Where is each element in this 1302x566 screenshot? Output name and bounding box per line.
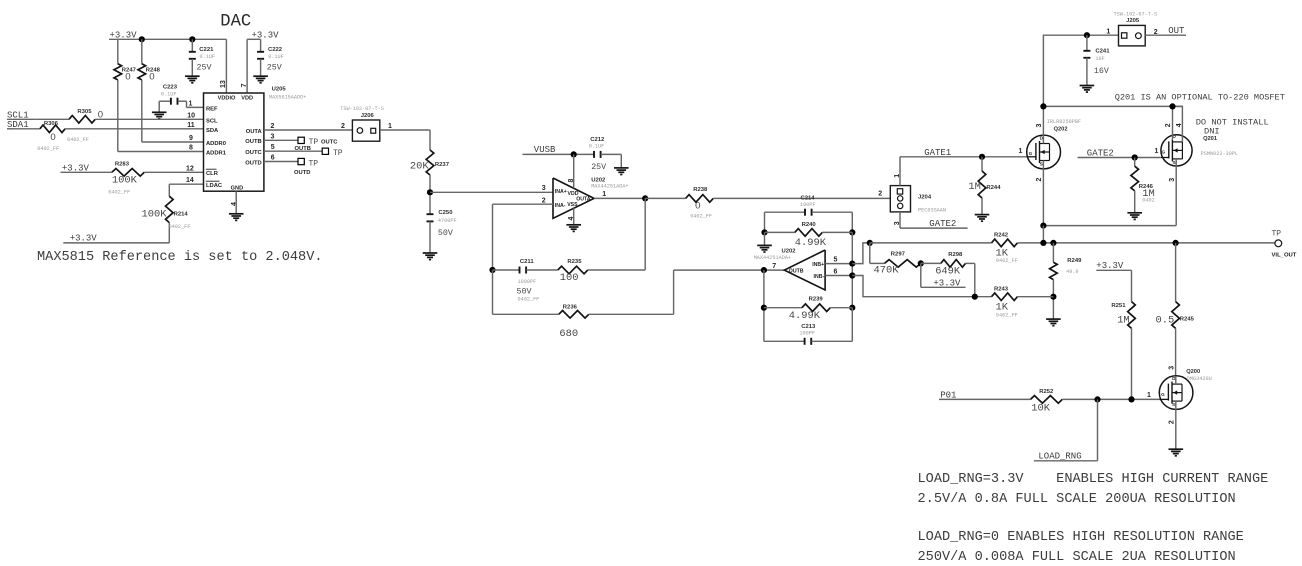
svg-text:0.1UF: 0.1UF	[161, 91, 177, 97]
svg-text:0402_FF: 0402_FF	[690, 214, 712, 220]
svg-text:100PF: 100PF	[800, 202, 816, 208]
svg-text:R239: R239	[809, 296, 824, 302]
svg-text:G: G	[1161, 392, 1165, 397]
svg-text:VSS: VSS	[567, 202, 578, 208]
svg-text:0: 0	[149, 71, 154, 82]
svg-text:3: 3	[1169, 178, 1176, 182]
svg-text:25V: 25V	[267, 63, 282, 72]
svg-text:OUTB: OUTB	[789, 268, 804, 274]
svg-text:0402: 0402	[1142, 198, 1154, 204]
svg-text:9: 9	[189, 135, 193, 142]
svg-text:649K: 649K	[935, 266, 961, 278]
svg-text:25V: 25V	[197, 63, 212, 72]
svg-text:4: 4	[1176, 123, 1183, 127]
svg-text:100K: 100K	[142, 208, 168, 220]
svg-text:G: G	[1162, 150, 1166, 155]
svg-text:0: 0	[98, 110, 103, 121]
svg-text:OUTB: OUTB	[245, 139, 261, 145]
svg-text:8: 8	[189, 145, 193, 152]
svg-text:OUTC: OUTC	[321, 139, 338, 145]
svg-text:100K: 100K	[112, 175, 138, 187]
svg-text:1: 1	[388, 123, 392, 130]
svg-text:R214: R214	[174, 211, 189, 217]
svg-text:SDA: SDA	[206, 128, 219, 134]
svg-text:INB-: INB-	[814, 274, 825, 280]
svg-text:2: 2	[271, 123, 275, 130]
svg-text:470K: 470K	[874, 265, 900, 277]
svg-text:1: 1	[1155, 148, 1159, 155]
svg-text:0.1UF: 0.1UF	[200, 54, 216, 60]
svg-text:MAX5815 Reference is set to 2.: MAX5815 Reference is set to 2.048V.	[37, 250, 323, 265]
svg-text:7: 7	[772, 263, 776, 270]
svg-text:6: 6	[834, 269, 838, 276]
svg-text:13: 13	[220, 80, 227, 88]
svg-text:R249: R249	[1067, 258, 1082, 264]
svg-text:2: 2	[341, 123, 345, 130]
svg-text:DMG3420U: DMG3420U	[1187, 376, 1212, 382]
svg-text:OUTC: OUTC	[245, 150, 262, 156]
svg-text:7: 7	[241, 83, 248, 87]
svg-text:C221: C221	[199, 47, 214, 53]
svg-text:11: 11	[187, 122, 195, 129]
svg-text:250V/A 0.008A FULL SCALE 2UA R: 250V/A 0.008A FULL SCALE 2UA RESOLUTION	[918, 550, 1236, 565]
svg-text:R283: R283	[115, 161, 130, 167]
svg-text:VDD: VDD	[241, 95, 253, 101]
svg-text:49.9: 49.9	[1066, 269, 1078, 275]
svg-text:6: 6	[271, 155, 275, 162]
svg-text:R243: R243	[994, 287, 1009, 293]
svg-text:INB+: INB+	[812, 262, 824, 268]
svg-text:LOAD_RNG: LOAD_RNG	[1038, 452, 1081, 462]
svg-text:100: 100	[560, 272, 579, 284]
svg-text:5: 5	[271, 144, 275, 151]
svg-text:R305: R305	[77, 109, 92, 115]
svg-text:J206: J206	[361, 113, 375, 119]
svg-text:U205: U205	[272, 87, 287, 93]
svg-text:0.1UF: 0.1UF	[268, 54, 284, 60]
svg-text:10: 10	[187, 112, 195, 119]
svg-text:C213: C213	[801, 324, 816, 330]
svg-text:1: 1	[1019, 148, 1023, 155]
svg-text:1: 1	[189, 100, 193, 107]
svg-text:GATE2: GATE2	[929, 219, 956, 229]
svg-text:TSW-102-07-T-S: TSW-102-07-T-S	[1114, 11, 1158, 17]
svg-text:INA-: INA-	[555, 203, 566, 209]
svg-text:R238: R238	[693, 187, 708, 193]
svg-text:OUTA: OUTA	[576, 196, 591, 202]
svg-text:VDDIO: VDDIO	[218, 95, 236, 101]
svg-text:25V: 25V	[591, 163, 606, 172]
svg-text:TSW-102-07-T-S: TSW-102-07-T-S	[340, 106, 384, 112]
svg-text:PEC03SAAN: PEC03SAAN	[918, 207, 946, 213]
svg-text:4.99K: 4.99K	[789, 310, 821, 322]
svg-text:10K: 10K	[1031, 403, 1050, 415]
svg-text:0.5: 0.5	[1156, 314, 1175, 326]
svg-text:R235: R235	[567, 259, 582, 265]
svg-text:2: 2	[1036, 178, 1043, 182]
svg-text:0402_FF: 0402_FF	[169, 224, 191, 230]
svg-text:0402_FF: 0402_FF	[518, 297, 540, 303]
svg-text:R298: R298	[948, 252, 963, 258]
svg-text:0: 0	[695, 201, 700, 212]
svg-text:2: 2	[878, 191, 882, 198]
svg-text:OUT: OUT	[1168, 26, 1185, 36]
svg-text:3: 3	[1036, 124, 1043, 128]
svg-text:R244: R244	[986, 185, 1001, 191]
svg-text:R297: R297	[891, 252, 906, 258]
svg-text:C212: C212	[590, 137, 605, 143]
svg-text:OUTA: OUTA	[246, 129, 263, 135]
svg-text:0.1UF: 0.1UF	[589, 144, 605, 150]
svg-text:Q201: Q201	[1203, 136, 1217, 142]
svg-text:VUSB: VUSB	[534, 145, 556, 155]
svg-text:C214: C214	[801, 195, 816, 201]
svg-text:1: 1	[1106, 29, 1110, 36]
svg-text:ADDR0: ADDR0	[206, 141, 226, 147]
svg-text:U202: U202	[782, 249, 797, 255]
svg-text:VIL_OUT: VIL_OUT	[1272, 252, 1297, 258]
svg-text:MAX44251ADA+: MAX44251ADA+	[754, 255, 791, 261]
svg-text:4: 4	[231, 202, 238, 206]
svg-text:Q202: Q202	[1054, 127, 1068, 133]
svg-text:14: 14	[186, 177, 194, 184]
svg-text:R306: R306	[44, 121, 59, 127]
svg-text:20K: 20K	[410, 160, 429, 172]
svg-text:DAC: DAC	[220, 12, 251, 31]
svg-text:U202: U202	[591, 177, 606, 183]
svg-text:50V: 50V	[517, 288, 532, 297]
svg-text:MAX44251ADA+: MAX44251ADA+	[591, 184, 628, 190]
svg-text:0402_FF: 0402_FF	[996, 258, 1018, 264]
svg-text:LDAC: LDAC	[206, 183, 223, 189]
svg-text:0402_FF: 0402_FF	[67, 137, 89, 143]
svg-text:10F: 10F	[1095, 56, 1104, 62]
svg-text:1M: 1M	[1117, 314, 1129, 326]
svg-text:+3.3V: +3.3V	[70, 234, 98, 244]
svg-text:3: 3	[542, 185, 546, 192]
svg-text:GATE2: GATE2	[1087, 149, 1114, 159]
svg-text:R252: R252	[1039, 389, 1054, 395]
svg-text:4.99K: 4.99K	[795, 237, 827, 249]
svg-text:TP: TP	[309, 159, 319, 168]
svg-text:0402_FF: 0402_FF	[37, 146, 59, 152]
svg-text:R251: R251	[1111, 303, 1126, 309]
svg-text:INA+: INA+	[555, 189, 567, 195]
svg-text:J205: J205	[1126, 18, 1140, 24]
svg-text:S: S	[1172, 402, 1175, 407]
svg-text:SCL: SCL	[206, 118, 218, 124]
svg-text:TP: TP	[1272, 229, 1282, 238]
svg-text:CLR: CLR	[206, 171, 219, 177]
svg-text:680: 680	[559, 328, 578, 340]
svg-text:2.5V/A 0.8A FULL SCALE 200UA R: 2.5V/A 0.8A FULL SCALE 200UA RESOLUTION	[918, 492, 1236, 507]
svg-text:1M: 1M	[968, 181, 980, 193]
svg-text:GATE1: GATE1	[924, 148, 951, 158]
svg-text:G: G	[1029, 151, 1033, 156]
svg-text:TP: TP	[333, 149, 343, 158]
svg-text:Q200: Q200	[1186, 369, 1200, 375]
svg-text:2: 2	[1168, 420, 1175, 424]
svg-text:R236: R236	[563, 305, 578, 311]
svg-text:C241: C241	[1095, 48, 1110, 54]
svg-text:GND: GND	[231, 185, 243, 191]
svg-text:J204: J204	[918, 195, 932, 201]
svg-text:50V: 50V	[438, 229, 453, 238]
svg-text:R240: R240	[802, 222, 817, 228]
svg-text:LOAD_RNG=0 ENABLES HIGH RESOLU: LOAD_RNG=0 ENABLES HIGH RESOLUTION RANGE	[918, 530, 1244, 545]
svg-text:2: 2	[1165, 123, 1172, 127]
svg-text:Q201 IS AN OPTIONAL TO-220 MOS: Q201 IS AN OPTIONAL TO-220 MOSFET	[1115, 93, 1285, 103]
svg-text:1: 1	[602, 191, 606, 198]
svg-text:C211: C211	[520, 259, 534, 265]
svg-text:100PF: 100PF	[799, 331, 815, 337]
svg-text:OUTD: OUTD	[245, 160, 261, 166]
svg-text:0: 0	[125, 71, 130, 82]
svg-text:ADDR1: ADDR1	[206, 151, 227, 157]
svg-text:16V: 16V	[1094, 67, 1109, 76]
svg-text:3: 3	[271, 133, 275, 140]
svg-text:C223: C223	[163, 85, 178, 91]
svg-text:5: 5	[834, 257, 838, 264]
svg-text:PSMN022-30PL: PSMN022-30PL	[1201, 151, 1238, 157]
svg-text:+3.3V: +3.3V	[933, 278, 961, 288]
svg-text:IRLR8259PBF: IRLR8259PBF	[1047, 119, 1081, 125]
svg-text:R237: R237	[435, 162, 450, 168]
svg-text:1000PF: 1000PF	[518, 279, 537, 285]
svg-text:4700PF: 4700PF	[438, 218, 457, 224]
svg-text:C222: C222	[268, 47, 283, 53]
svg-text:0402_FF: 0402_FF	[108, 189, 130, 195]
svg-text:3: 3	[1168, 366, 1175, 370]
svg-text:R242: R242	[994, 233, 1009, 239]
svg-text:1K: 1K	[996, 301, 1009, 313]
svg-text:R245: R245	[1180, 317, 1195, 323]
svg-text:0: 0	[50, 132, 55, 143]
svg-text:S: S	[1040, 162, 1043, 167]
svg-text:REF: REF	[206, 106, 218, 112]
svg-text:1: 1	[1147, 392, 1151, 399]
svg-text:MAX5815AADD+: MAX5815AADD+	[269, 95, 306, 101]
svg-text:OUTD: OUTD	[294, 170, 310, 176]
svg-text:LOAD_RNG=3.3V ENABLES HIGH: LOAD_RNG=3.3V ENABLES HIGH CURRENT RANGE	[918, 472, 1269, 487]
svg-text:C250: C250	[438, 210, 453, 216]
svg-text:S: S	[1173, 160, 1176, 165]
svg-text:12: 12	[186, 165, 194, 172]
svg-text:0402_FF: 0402_FF	[996, 313, 1018, 319]
